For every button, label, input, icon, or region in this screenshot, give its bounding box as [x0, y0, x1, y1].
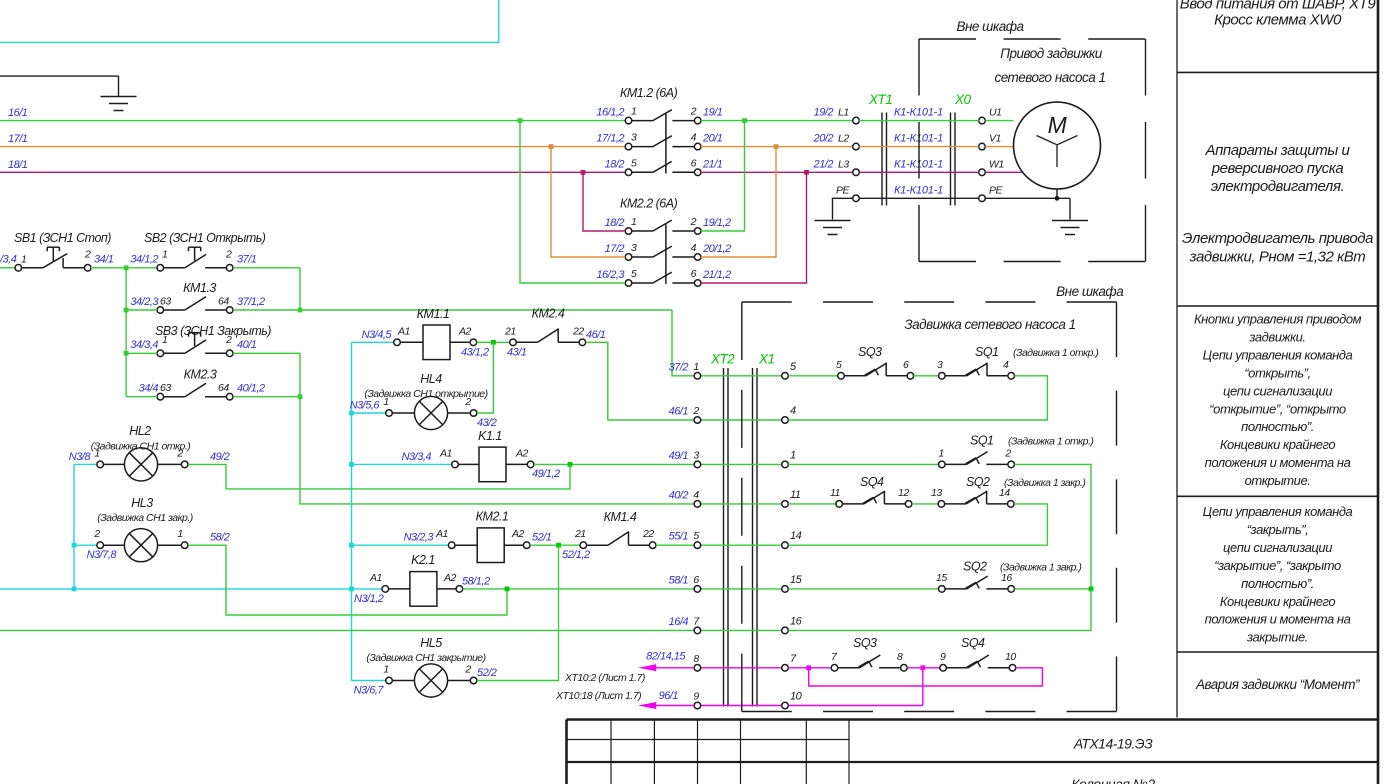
svg-text:Концевики крайнего: Концевики крайнего [1220, 437, 1336, 452]
svg-text:1: 1 [938, 447, 943, 459]
svg-text:21/1,2: 21/1,2 [702, 269, 731, 281]
terminal XT2:4 / X1:11 row 40/2 [669, 489, 801, 507]
wire L2 through strip [859, 146, 1016, 148]
limit switch SQ1 contact 1-2 [938, 447, 1014, 467]
label SB3 [155, 324, 271, 338]
wire 19/1,2 KM2.2 out up [701, 121, 745, 231]
svg-text:15: 15 [790, 574, 803, 586]
wire SQ2 out down to row5 [788, 504, 1047, 545]
svg-text:52/2: 52/2 [477, 667, 497, 679]
svg-text:5: 5 [693, 530, 699, 542]
svg-text:N3/2,3: N3/2,3 [404, 532, 435, 544]
svg-text:34/2,3: 34/2,3 [130, 296, 159, 308]
svg-text:1: 1 [631, 106, 636, 118]
lamp HL4 [383, 396, 477, 430]
svg-text:Вне шкафа: Вне шкафа [1056, 284, 1124, 299]
svg-text:4: 4 [693, 489, 699, 501]
pushbutton SB1 [15, 247, 91, 271]
dashed border - zadvizhka box [742, 302, 1117, 712]
svg-text:“открыть”,: “открыть”, [1244, 365, 1310, 380]
svg-text:SB1 (ЗСН1 Стоп): SB1 (ЗСН1 Стоп) [14, 231, 111, 245]
svg-text:2: 2 [690, 216, 697, 228]
svg-text:полностью”.: полностью”. [1241, 419, 1314, 434]
svg-text:5: 5 [631, 157, 637, 169]
svg-text:21/1: 21/1 [702, 158, 723, 170]
wire 16/1 (phase L1 feeder) [0, 107, 625, 121]
pin labels KM2.2 [631, 216, 697, 280]
svg-text:6: 6 [693, 574, 699, 586]
svg-text:(Задвижка СН1 открытие): (Задвижка СН1 открытие) [364, 388, 487, 400]
label KM2.3 [184, 368, 217, 382]
wire N3/7,8 to HL3 [74, 545, 117, 561]
label Zadvizhka setevogo nasosa 1 [904, 317, 1075, 332]
wire X1:11 to SQ4 [788, 503, 836, 505]
svg-text:(Задвижка 1 откр.): (Задвижка 1 откр.) [1013, 347, 1098, 359]
contactor KM1.2 power contacts [625, 110, 701, 176]
label setevogo nasosa 1 [994, 70, 1105, 85]
svg-text:КМ1.1: КМ1.1 [417, 307, 450, 321]
wire 37/1,2 [233, 296, 672, 312]
svg-text:11: 11 [790, 489, 801, 501]
svg-text:закрытие.: закрытие. [1246, 630, 1308, 645]
wire SQ1 out down to row2 [788, 376, 1047, 420]
svg-text:10: 10 [1005, 651, 1016, 663]
lamp HL5 [383, 664, 477, 698]
svg-text:SQ3: SQ3 [858, 345, 882, 359]
notes column frame [1177, 0, 1378, 784]
svg-text:5: 5 [836, 359, 842, 371]
svg-text:17/1: 17/1 [8, 133, 28, 145]
label Vne shkafa (bottom) [1056, 284, 1124, 299]
wire N3 lamp branch vertical [72, 464, 77, 589]
svg-text:1: 1 [162, 248, 167, 260]
XT1 terminals L1 L2 L3 PE [836, 107, 859, 202]
svg-text:6: 6 [691, 268, 697, 280]
terminal strip XT1 [868, 92, 892, 206]
limit switch SQ1 contact 3-4 [937, 359, 1015, 379]
svg-text:3: 3 [631, 132, 637, 144]
svg-text:(Задвижка 1 откр.): (Задвижка 1 откр.) [1008, 436, 1093, 448]
note cell 1 text [1180, 0, 1377, 29]
wire X1:5 to SQ3 [788, 375, 837, 377]
svg-text:открытие.: открытие. [1245, 473, 1311, 488]
label SQ4 row8 [961, 636, 985, 650]
svg-text:HL2: HL2 [129, 424, 151, 438]
label HL3 [97, 496, 193, 524]
svg-text:сетевого насоса 1: сетевого насоса 1 [994, 70, 1105, 85]
svg-text:А2: А2 [458, 325, 472, 337]
label K2.1 [411, 553, 435, 567]
svg-text:электродвигателя.: электродвигателя. [1211, 178, 1344, 195]
svg-text:КМ2.2 (6А): КМ2.2 (6А) [620, 197, 678, 211]
svg-text:Электродвигатель привода: Электродвигатель привода [1182, 230, 1373, 247]
svg-text:8: 8 [897, 651, 903, 663]
wire 37/2 elbow to XT2 pin1 [672, 310, 694, 376]
wire SQ4 to SQ2 row4 [912, 503, 938, 505]
svg-text:34/1: 34/1 [94, 253, 114, 265]
label SQ1 row3 [970, 434, 1093, 448]
wire 20/1,2 KM2.2 out up [701, 147, 776, 257]
label KM1.1 [417, 307, 450, 321]
svg-text:Привод задвижки: Привод задвижки [1000, 46, 1103, 61]
wire 40/1 [233, 339, 300, 397]
contact KM2.3 [139, 382, 233, 400]
svg-text:49/1,2: 49/1,2 [532, 468, 560, 480]
svg-text:А1: А1 [439, 447, 452, 459]
svg-text:КМ1.4: КМ1.4 [604, 510, 637, 524]
svg-text:2: 2 [84, 248, 91, 260]
svg-text:58/1: 58/1 [669, 574, 689, 586]
wire labels 19/2 20/2 21/2 [813, 107, 834, 171]
svg-text:1: 1 [631, 216, 636, 228]
svg-text:18/2: 18/2 [605, 217, 625, 229]
svg-text:задвижки.: задвижки. [1248, 329, 1305, 344]
wire 19/1 KM1.2 out to XT1 L1 [701, 118, 853, 123]
svg-text:ХТ1: ХТ1 [868, 92, 892, 107]
svg-text:34/4: 34/4 [139, 383, 159, 395]
svg-text:КМ2.3: КМ2.3 [184, 368, 217, 382]
wire N3/3,4 to K1.1 A1 [352, 451, 452, 465]
svg-text:Цепи управления команда: Цепи управления команда [1203, 347, 1353, 362]
svg-text:полностью”.: полностью”. [1241, 576, 1314, 591]
wire X1:1 to SQ1 [788, 463, 938, 465]
X0 terminals U1 V1 W1 PE [979, 107, 1004, 202]
coil KM2.1 [435, 528, 530, 563]
wire 46/1 to XT2 [586, 329, 695, 420]
wire SQ3 to SQ4 row8 [907, 665, 940, 670]
svg-text:SB3 (ЗСН1 Закрыть): SB3 (ЗСН1 Закрыть) [155, 324, 271, 338]
svg-text:КМ1.3: КМ1.3 [183, 281, 216, 295]
svg-text:N3/7,8: N3/7,8 [87, 549, 118, 561]
terminal XT2:3 / X1:1 row 49/1 [669, 449, 796, 467]
wire N3 cyan inlet (top) [0, 0, 499, 42]
svg-text:4: 4 [691, 242, 697, 254]
limit switch SQ3 contact 7-8 [831, 651, 907, 671]
svg-text:43/1,2: 43/1,2 [461, 346, 489, 358]
svg-text:положения и момента на: положения и момента на [1205, 455, 1351, 470]
svg-text:1: 1 [21, 253, 26, 265]
wire 20/1 KM1.2 out to XT1 L2 [701, 144, 853, 149]
limit switch SQ2 contact 13-14 [931, 487, 1014, 507]
wire 37/1 [233, 253, 300, 310]
terminal strip X0 [951, 92, 972, 206]
svg-text:40/1: 40/1 [237, 339, 257, 351]
svg-text:4: 4 [1003, 359, 1009, 371]
svg-text:16/2,3: 16/2,3 [596, 269, 625, 281]
motor PE stub and junction [1055, 189, 1060, 201]
svg-text:SQ2: SQ2 [966, 475, 990, 489]
svg-text:8: 8 [693, 653, 699, 665]
label K1.1 [478, 429, 502, 443]
svg-text:HL5: HL5 [420, 636, 442, 650]
svg-text:20/1: 20/1 [702, 133, 723, 145]
svg-text:“закрытие”, “закрыто: “закрытие”, “закрыто [1214, 558, 1341, 573]
label Vne shkafa (top) [956, 19, 1024, 34]
terminal XT2:9 / X1:10 row 96/1 [693, 691, 802, 709]
wire row7 up to junction [788, 589, 1091, 631]
svg-text:2: 2 [690, 106, 697, 118]
svg-text:55/1: 55/1 [669, 531, 689, 543]
lamp HL3 [93, 528, 188, 562]
svg-text:HL4: HL4 [420, 372, 442, 386]
svg-text:Концевики крайнего: Концевики крайнего [1220, 594, 1336, 609]
svg-text:37/1,2: 37/1,2 [237, 296, 265, 308]
svg-text:N3/8: N3/8 [69, 451, 92, 463]
svg-text:6: 6 [903, 359, 909, 371]
svg-text:КМ1.2 (6А): КМ1.2 (6А) [620, 86, 678, 100]
terminal XT2:5 / X1:14 row 55/1 [669, 530, 802, 548]
wire 58/2 from HL3 [188, 532, 507, 615]
svg-text:Задвижка сетевого насоса 1: Задвижка сетевого насоса 1 [904, 317, 1075, 332]
wire 21/1 KM1.2 out to XT1 L3 [701, 170, 853, 175]
svg-text:цепи сигнализации: цепи сигнализации [1223, 540, 1332, 555]
wire 43/2 up to junction [477, 342, 497, 429]
note cell 3 text [1194, 312, 1362, 489]
svg-text:16: 16 [790, 615, 803, 627]
limit switch SQ3 contact 5-6 [836, 359, 914, 379]
label 82/14,15 [646, 651, 686, 663]
svg-text:ХТ10:2 (Лист 1.7): ХТ10:2 (Лист 1.7) [564, 672, 645, 684]
svg-text:14: 14 [790, 530, 802, 542]
svg-text:КМ2.4: КМ2.4 [532, 307, 565, 321]
label HL5 [366, 636, 485, 664]
svg-text:N3/6,7: N3/6,7 [354, 685, 385, 697]
svg-text:9: 9 [940, 651, 946, 663]
wire 16 branch to KM2.2 pin5 [518, 118, 626, 283]
label XT10:2 [564, 672, 645, 684]
label SB1 [14, 231, 111, 245]
wire L3 through strip [859, 171, 1022, 173]
svg-text:K1.1: K1.1 [478, 429, 502, 443]
label ATX14-19.E3 [1073, 736, 1153, 752]
svg-text:(Задвижка 1 закр.): (Задвижка 1 закр.) [1000, 562, 1081, 574]
wire 49/1 out to XT2 [532, 462, 694, 480]
arrow to XT10:18 [638, 702, 694, 709]
wire N3/6,7 to HL5 [352, 681, 386, 697]
svg-text:64: 64 [218, 382, 229, 394]
coil KM1.1 [394, 325, 477, 360]
limit switch SQ4 contact 9-10 [940, 651, 1017, 671]
svg-text:(Задвижка 1 закр.): (Задвижка 1 закр.) [1004, 477, 1085, 489]
svg-text:цепи сигнализации: цепи сигнализации [1223, 383, 1332, 398]
label SQ3 row1 [858, 345, 882, 359]
svg-text:N3/3,4: N3/3,4 [402, 451, 432, 463]
lamp HL2 [94, 447, 188, 481]
svg-text:4: 4 [790, 405, 796, 417]
svg-text:12: 12 [898, 487, 909, 499]
svg-text:96/1: 96/1 [659, 690, 679, 702]
svg-text:реверсивного пуска: реверсивного пуска [1211, 160, 1344, 177]
svg-text:1: 1 [693, 361, 698, 373]
svg-text:2: 2 [225, 248, 232, 260]
label KM2.4 [532, 307, 565, 321]
coil K1.1 [439, 447, 534, 482]
svg-text:L1: L1 [838, 107, 849, 119]
coil K2.1 [354, 572, 463, 607]
svg-text:SQ4: SQ4 [961, 636, 985, 650]
svg-text:2: 2 [464, 664, 471, 676]
svg-text:19/1: 19/1 [703, 107, 723, 119]
svg-text:46/1: 46/1 [669, 406, 689, 418]
wire N3 cyan bus horizontal [0, 587, 382, 592]
svg-text:63: 63 [160, 382, 171, 394]
svg-text:43/1: 43/1 [507, 346, 527, 358]
svg-text:АТХ14-19.ЭЗ: АТХ14-19.ЭЗ [1073, 736, 1153, 752]
svg-text:17/2: 17/2 [605, 243, 625, 255]
svg-text:ХТ2: ХТ2 [710, 352, 735, 367]
svg-text:58/2: 58/2 [210, 532, 230, 544]
cable K1-K101-1 labels [894, 107, 943, 197]
wire into SB1 [0, 253, 26, 268]
label HL4 [364, 372, 487, 400]
svg-text:6: 6 [691, 157, 697, 169]
label SQ2 row6 [963, 560, 1081, 574]
svg-text:5: 5 [631, 268, 637, 280]
svg-text:N3/4,5: N3/4,5 [362, 329, 393, 341]
ground at motor [1052, 221, 1088, 235]
wire 40/1,2 [233, 383, 302, 399]
note cell 2 text [1182, 142, 1373, 266]
wire SQ2 row6 out to junction [1015, 587, 1094, 592]
svg-text:задвижки, Рном =1,32 кВт: задвижки, Рном =1,32 кВт [1189, 249, 1366, 266]
arrow to XT10:2 [638, 664, 694, 671]
wire N3 cyan bus vertical [349, 342, 354, 680]
svg-text:63: 63 [160, 296, 171, 308]
svg-text:“открытие”, “открыто: “открытие”, “открыто [1209, 401, 1346, 416]
svg-text:Вне шкафа: Вне шкафа [956, 19, 1024, 34]
wire labels at KM2.2 [596, 217, 731, 281]
svg-text:13: 13 [931, 487, 942, 499]
svg-text:37/2: 37/2 [669, 361, 689, 373]
svg-text:1: 1 [790, 449, 796, 461]
svg-text:52/1: 52/1 [532, 532, 552, 544]
svg-text:K2.1: K2.1 [411, 553, 435, 567]
label SQ1 row1 [975, 345, 1098, 359]
svg-text:М: М [1048, 112, 1068, 138]
wire labels at KM1.2 [596, 107, 722, 171]
svg-text:16: 16 [1001, 572, 1012, 584]
label KM1.3 [183, 281, 216, 295]
label KM2.2 [620, 197, 678, 211]
label Privod zadvizhki [1000, 46, 1103, 61]
svg-text:К1-К101-1: К1-К101-1 [894, 107, 943, 119]
wire 52/1 junction [530, 532, 590, 562]
wire N3/5,6 to HL4 [350, 400, 386, 414]
svg-text:W1: W1 [989, 158, 1004, 170]
wire 18 branch to KM2.2 pin1 [581, 170, 626, 231]
limit switch SQ4 contact 11-12 [830, 487, 912, 507]
svg-text:2: 2 [93, 528, 100, 540]
wire SQ1 row3 out down [1015, 464, 1092, 589]
terminal strip XT2 [710, 352, 735, 707]
svg-text:SQ1: SQ1 [970, 434, 994, 448]
terminal XT2:8 / X1:7 row 82/14,15 [693, 653, 797, 671]
svg-text:46/1: 46/1 [586, 329, 606, 341]
wire 55/1 to XT2 [656, 544, 694, 546]
svg-text:SQ1: SQ1 [975, 345, 999, 359]
svg-text:20/2: 20/2 [813, 133, 834, 145]
svg-text:9: 9 [693, 691, 699, 703]
svg-text:положения и момента на: положения и момента на [1205, 612, 1351, 627]
svg-text:4: 4 [691, 132, 697, 144]
wire SQ3 to SQ1 row1 [912, 375, 939, 377]
motor M drive [1014, 102, 1101, 189]
svg-text:L3: L3 [838, 158, 849, 170]
note cell 5 text [1195, 677, 1360, 692]
ground top-left [101, 97, 137, 111]
wire 34/1 [84, 248, 157, 270]
svg-text:HL3: HL3 [131, 496, 153, 510]
svg-text:SQ4: SQ4 [860, 475, 884, 489]
svg-text:SQ2: SQ2 [963, 560, 987, 574]
svg-text:21: 21 [574, 528, 586, 540]
label KM1.2 [620, 86, 678, 100]
svg-text:(Задвижка СН1 закрытие): (Задвижка СН1 закрытие) [366, 652, 485, 664]
label 96/1 [659, 690, 679, 702]
wire 58/1 out to XT2 [462, 575, 694, 591]
svg-text:18/2: 18/2 [605, 158, 625, 170]
label HL2 [91, 424, 191, 453]
svg-text:Авария задвижки “Момент”: Авария задвижки “Момент” [1195, 677, 1360, 692]
label Kolonnaya No2 [1071, 776, 1155, 784]
svg-text:43/2: 43/2 [477, 417, 497, 429]
wire 34 bus vertical [124, 268, 157, 397]
wire 17/1 (phase L2 feeder) [0, 133, 625, 147]
terminal strip X1 [753, 352, 775, 707]
svg-text:Х0: Х0 [954, 92, 972, 107]
svg-text:2: 2 [1004, 447, 1011, 459]
svg-text:К1-К101-1: К1-К101-1 [894, 184, 943, 196]
svg-text:16/4: 16/4 [669, 616, 689, 628]
wire PE to right ground [1069, 198, 1071, 219]
svg-text:V1: V1 [989, 133, 1001, 145]
wire junction B down to row9 [788, 668, 923, 706]
svg-text:58/1,2: 58/1,2 [462, 575, 490, 587]
svg-text:11: 11 [830, 487, 840, 499]
wire N3/4,5 to KM1.1 A1 [352, 329, 394, 343]
wire X1:7 to SQ3 row8 [788, 665, 831, 670]
svg-text:21: 21 [504, 325, 516, 337]
contactor KM2.2 power contacts [625, 220, 701, 286]
pushbutton SB2 [130, 247, 233, 271]
svg-text:КМ2.1: КМ2.1 [476, 510, 509, 524]
wire 21/1,2 KM2.2 out up [701, 172, 807, 283]
wire L1 through strip [859, 120, 1013, 122]
svg-text:21/2: 21/2 [813, 158, 834, 170]
svg-text:SB2 (ЗСН1 Открыть): SB2 (ЗСН1 Открыть) [144, 231, 266, 245]
wire N3/2,3 to KM2.1 A1 [352, 532, 449, 546]
svg-text:82/14,15: 82/14,15 [646, 651, 686, 663]
wire SQ4 bypass loop [809, 668, 1043, 686]
svg-text:1: 1 [177, 528, 182, 540]
terminal XT2:6 / X1:15 row 58/1 [669, 574, 803, 592]
svg-text:19/2: 19/2 [814, 107, 834, 119]
limit switch SQ2 contact 15-16 [936, 572, 1015, 592]
wire 16/4 feeder [0, 629, 694, 631]
svg-text:А1: А1 [435, 528, 448, 540]
svg-text:16/1: 16/1 [8, 107, 28, 119]
svg-text:Х1: Х1 [758, 352, 775, 367]
pushbutton SB3 [130, 333, 233, 357]
svg-text:18/1: 18/1 [8, 159, 28, 171]
svg-text:3: 3 [937, 359, 943, 371]
svg-text:37/1: 37/1 [237, 253, 257, 265]
contact KM1.3 [130, 296, 233, 314]
wire X1:15 to SQ2 [788, 588, 938, 590]
svg-text:3: 3 [631, 242, 637, 254]
label KM1.4 [604, 510, 637, 524]
svg-text:Аппараты защиты и: Аппараты защиты и [1205, 142, 1351, 159]
